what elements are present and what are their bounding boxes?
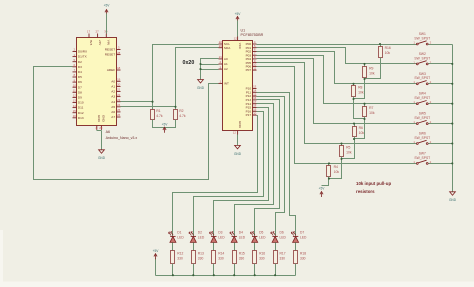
- svg-text:R18: R18: [300, 252, 306, 256]
- svg-text:A0: A0: [224, 57, 228, 61]
- svg-text:SW4: SW4: [419, 92, 426, 96]
- text 0x20: [183, 60, 195, 66]
- junction R5 bottom: [340, 158, 342, 160]
- svg-text:SW_SPST: SW_SPST: [414, 156, 430, 160]
- wire P05 to SW6: [257, 63, 417, 144]
- resistor R15: [233, 251, 237, 264]
- svg-text:A2: A2: [224, 67, 228, 71]
- junction rail row 4: [451, 103, 453, 105]
- led D5: [250, 232, 257, 243]
- svg-text:R15: R15: [239, 252, 245, 256]
- wire R18 to +5V rail: [295, 264, 297, 276]
- svg-text:12: 12: [234, 36, 238, 40]
- resistor R2: [174, 110, 178, 120]
- svg-text:R4: R4: [334, 165, 338, 169]
- svg-text:VIN: VIN: [107, 40, 111, 45]
- wire SW5 to gnd rail: [429, 123, 453, 125]
- svg-text:D11: D11: [78, 106, 84, 110]
- junction rail row 3: [451, 83, 453, 85]
- wire R4 top stub: [328, 164, 330, 166]
- svg-text:SW_SPST: SW_SPST: [414, 76, 430, 80]
- svg-text:SW_SPST: SW_SPST: [414, 96, 430, 100]
- wire LED D1 to resistor: [172, 243, 174, 251]
- svg-text:21: 21: [219, 55, 223, 59]
- wire +5V to PCF8575 VCC: [237, 21, 239, 37]
- svg-text:SW1: SW1: [419, 32, 426, 36]
- svg-text:A4: A4: [111, 100, 115, 104]
- wire R15 to +5V rail: [234, 264, 236, 276]
- svg-text:11: 11: [253, 66, 256, 70]
- svg-text:A6: A6: [106, 130, 110, 134]
- wire R8 bottom to R7 bottom: [354, 97, 365, 119]
- svg-text:14: 14: [73, 104, 77, 108]
- svg-text:LED: LED: [239, 235, 246, 239]
- junction rail row 7: [451, 162, 453, 164]
- junction rail under D5: [254, 274, 256, 276]
- wire SW7 to gnd rail: [429, 163, 453, 165]
- resistor R8: [352, 86, 356, 97]
- svg-text:A5: A5: [111, 105, 115, 109]
- wire LED D5 to resistor: [254, 243, 256, 251]
- svg-text:R5: R5: [346, 145, 350, 149]
- label D4 LED: [239, 231, 246, 240]
- ic U1 PCF8575 body: [223, 41, 253, 131]
- wire R16 top stub: [380, 45, 382, 47]
- svg-text:R2: R2: [179, 109, 183, 113]
- wire R7 bottom to R6 bottom: [355, 117, 365, 139]
- svg-text:SW5: SW5: [419, 112, 426, 116]
- svg-text:R16: R16: [385, 46, 391, 50]
- arduino value Arduino_Nano_v3.x: [106, 136, 138, 140]
- svg-text:12: 12: [73, 94, 77, 98]
- svg-text:20: 20: [117, 83, 121, 87]
- power +5V above PCF8575: [235, 12, 242, 22]
- wire P16 to LED D2: [194, 112, 264, 237]
- svg-text:A1: A1: [224, 62, 228, 66]
- junction R9 tap: [363, 63, 365, 65]
- svg-text:+5V: +5V: [162, 123, 169, 127]
- power +5V below R1 R2: [162, 123, 169, 133]
- svg-text:27: 27: [95, 30, 99, 34]
- svg-text:12: 12: [233, 131, 237, 135]
- label R1 4.7k: [156, 109, 163, 118]
- junction R7 tap: [363, 103, 365, 105]
- svg-text:330: 330: [300, 257, 306, 261]
- arduino right pins RESET AREF A0-A7: [105, 46, 121, 119]
- wire joining arduino GND pins: [97, 130, 102, 132]
- wire SW1 to gnd rail: [429, 44, 453, 46]
- wire P00 to SW1: [257, 44, 417, 46]
- svg-text:+5V: +5V: [153, 249, 160, 253]
- arduino designator A6: [106, 130, 110, 134]
- led D1: [169, 232, 176, 243]
- svg-text:30: 30: [104, 30, 108, 34]
- svg-text:10k: 10k: [346, 150, 352, 154]
- label R12 330: [177, 252, 183, 261]
- svg-text:D5: D5: [259, 231, 263, 235]
- wire R5 bottom to R4 bottom: [329, 157, 342, 179]
- wire R16 to +5V rail: [254, 264, 256, 276]
- resistor R6: [353, 127, 357, 137]
- wire R4 bottom to +5V: [322, 177, 329, 186]
- junction R8 bottom: [352, 98, 354, 100]
- wire SW4 to gnd rail: [429, 103, 453, 105]
- wire switch ground rail: [452, 45, 454, 192]
- svg-text:D3: D3: [78, 65, 82, 69]
- svg-text:15: 15: [73, 109, 77, 113]
- svg-text:RESET: RESET: [105, 53, 115, 57]
- svg-text:26: 26: [117, 113, 121, 117]
- switch SW1 SW_SPST: [413, 32, 431, 45]
- wire SCL net to PCF8575: [153, 45, 219, 110]
- wire R16 bottom to R9 bottom: [365, 58, 381, 79]
- wire R8 top stub: [353, 84, 355, 86]
- svg-text:25: 25: [117, 108, 121, 112]
- svg-text:330: 330: [239, 257, 245, 261]
- svg-text:D7: D7: [78, 85, 82, 89]
- power +5V above arduino: [104, 3, 111, 14]
- wire R5 top stub: [341, 144, 343, 146]
- ground for PCF address pins: [197, 80, 205, 90]
- wire P04 to SW5: [257, 59, 417, 124]
- wire R6 bottom to R5 bottom: [342, 137, 355, 159]
- svg-text:+5V: +5V: [104, 3, 111, 7]
- led D3: [210, 232, 217, 243]
- svg-text:R7: R7: [369, 106, 373, 110]
- wire arduino A5 to R2 column: [121, 106, 176, 108]
- resistor R13: [192, 251, 196, 264]
- svg-text:A6: A6: [111, 110, 115, 114]
- svg-text:SW_SPST: SW_SPST: [414, 36, 430, 40]
- svg-text:10k: 10k: [334, 170, 340, 174]
- U1 designator: [241, 29, 246, 33]
- svg-text:330: 330: [280, 257, 286, 261]
- wire R7 top stub: [364, 104, 366, 107]
- wire P02 to SW3: [257, 52, 417, 84]
- resistor R18: [294, 251, 298, 264]
- wire P13 to LED D5: [255, 100, 280, 237]
- wire R9 bottom to R8 bottom: [354, 78, 365, 99]
- junction rail row 6: [451, 142, 453, 144]
- note 10k input pull-up resistors: [356, 181, 391, 194]
- svg-text:10k: 10k: [385, 51, 391, 55]
- svg-text:P17: P17: [246, 113, 252, 117]
- svg-text:SW3: SW3: [419, 72, 426, 76]
- wire LED D4 to resistor: [234, 243, 236, 251]
- svg-text:3V3: 3V3: [89, 40, 93, 46]
- svg-text:18: 18: [117, 66, 121, 70]
- svg-text:19: 19: [117, 78, 121, 82]
- wire R13 to +5V rail: [193, 264, 195, 276]
- junction A4/R1: [151, 101, 153, 103]
- svg-text:D1/TX: D1/TX: [78, 55, 87, 59]
- power +5V for pull-ups: [319, 187, 326, 197]
- svg-text:330: 330: [198, 257, 204, 261]
- svg-text:D8: D8: [78, 90, 82, 94]
- arduino A6 body: [77, 38, 117, 126]
- svg-text:20: 20: [253, 111, 257, 115]
- svg-text:29: 29: [99, 126, 103, 130]
- resistor R1: [151, 110, 155, 120]
- svg-text:A7: A7: [111, 115, 115, 119]
- svg-text:+5V: +5V: [98, 40, 102, 47]
- svg-text:D7: D7: [300, 231, 304, 235]
- svg-text:AREF: AREF: [107, 68, 115, 72]
- wire SW3 to gnd rail: [429, 83, 453, 85]
- label R5 10k: [346, 145, 352, 154]
- wire R14 to +5V rail: [213, 264, 215, 276]
- svg-text:R13: R13: [198, 252, 204, 256]
- wire LED D3 to resistor: [213, 243, 215, 251]
- wire R17 to +5V rail: [275, 264, 277, 276]
- svg-text:LED: LED: [177, 235, 184, 239]
- junction R9 bottom: [363, 78, 365, 80]
- wire P11 to LED D7: [257, 93, 296, 237]
- svg-text:PCF8575DBR: PCF8575DBR: [241, 33, 264, 37]
- resistor R4: [327, 166, 331, 177]
- PCF8575 VCC pin: [234, 36, 242, 50]
- junction rail under D2: [192, 274, 194, 276]
- label R9 10k: [369, 66, 375, 75]
- svg-text:R17: R17: [280, 252, 286, 256]
- svg-text:330: 330: [177, 257, 183, 261]
- arduino top pins 3V3 +5V VIN: [87, 30, 111, 47]
- svg-text:10k: 10k: [369, 71, 375, 75]
- svg-text:R6: R6: [359, 126, 363, 130]
- resistor R16: [253, 251, 257, 264]
- power +5V for LEDs: [153, 249, 160, 259]
- label R17 330: [280, 252, 286, 261]
- svg-text:22: 22: [117, 93, 121, 97]
- wire SDA net to PCF8575: [176, 48, 219, 110]
- junction R4 tap: [328, 162, 330, 164]
- svg-text:16: 16: [73, 114, 77, 118]
- svg-text:28: 28: [117, 51, 121, 55]
- svg-text:SW2: SW2: [419, 52, 426, 56]
- svg-text:LED: LED: [198, 235, 205, 239]
- svg-text:D2: D2: [78, 60, 82, 64]
- PCF8575 right pins P00-P07 P10-P17: [246, 40, 257, 117]
- svg-text:LED: LED: [300, 235, 307, 239]
- svg-text:R9: R9: [369, 66, 373, 70]
- label R16 330: [259, 252, 265, 261]
- wire LED D2 to resistor: [193, 243, 195, 251]
- svg-text:LED: LED: [280, 235, 287, 239]
- resistor R17: [274, 251, 278, 264]
- svg-text:0x20: 0x20: [183, 60, 195, 66]
- svg-text:4.7k: 4.7k: [156, 114, 163, 118]
- junction rail under D4: [233, 274, 235, 276]
- junction rail row 2: [451, 63, 453, 65]
- svg-text:4.7k: 4.7k: [179, 114, 186, 118]
- resistor R12: [171, 251, 175, 264]
- wire arduino A4 to R1 column: [121, 101, 153, 103]
- junction R16 tap: [379, 43, 381, 45]
- resistor R5: [340, 146, 344, 157]
- svg-text:GND: GND: [449, 198, 457, 202]
- svg-text:10: 10: [73, 83, 77, 87]
- label D3 LED: [218, 231, 225, 240]
- svg-text:D9: D9: [78, 96, 82, 100]
- label D2 LED: [198, 231, 205, 240]
- svg-text:LED: LED: [259, 235, 266, 239]
- svg-text:SW_SPST: SW_SPST: [414, 136, 430, 140]
- wire PCF8575 GND down: [237, 135, 239, 146]
- svg-text:GND: GND: [98, 156, 106, 160]
- wire LED D6 to resistor: [275, 243, 277, 251]
- wire PCF A2 to ground: [201, 69, 219, 71]
- resistor R9: [363, 67, 367, 78]
- svg-text:A0: A0: [111, 79, 115, 83]
- wire R1 R2 bottoms to +5V: [153, 120, 176, 128]
- wire PCF A1 to ground: [201, 64, 219, 66]
- svg-text:D2: D2: [198, 231, 202, 235]
- svg-text:resistors: resistors: [356, 189, 375, 194]
- label R2 4.7k: [179, 109, 186, 118]
- svg-text:+5V: +5V: [235, 12, 242, 16]
- svg-text:330: 330: [218, 257, 224, 261]
- label R16 10k: [385, 46, 391, 55]
- svg-text:A2: A2: [111, 90, 115, 94]
- svg-text:P07: P07: [246, 68, 252, 72]
- svg-text:GND: GND: [234, 152, 242, 156]
- svg-text:10k: 10k: [359, 131, 365, 135]
- wire P01 to SW2: [257, 48, 417, 64]
- resistor R7: [363, 107, 367, 117]
- svg-text:10k input pull-up: 10k input pull-up: [356, 181, 391, 186]
- svg-text:24: 24: [117, 103, 121, 107]
- junction A5/R2: [174, 106, 176, 108]
- wire P06 to SW7: [257, 67, 417, 164]
- svg-text:INT: INT: [224, 82, 229, 86]
- svg-text:GND: GND: [102, 115, 106, 123]
- svg-text:D6: D6: [280, 231, 284, 235]
- ground below arduino: [98, 150, 106, 160]
- junction R8 tap: [352, 83, 354, 85]
- led D2: [189, 232, 196, 243]
- switch SW5 SW_SPST: [413, 112, 431, 125]
- svg-text:GND: GND: [238, 121, 242, 129]
- wire P12 to LED D6: [257, 97, 285, 237]
- svg-text:D10: D10: [78, 101, 84, 105]
- resistor R16: [379, 47, 383, 58]
- svg-text:11: 11: [73, 89, 76, 93]
- wire +5V rail riser: [155, 259, 157, 276]
- label R6 10k: [359, 126, 365, 135]
- svg-text:330: 330: [259, 257, 265, 261]
- svg-text:R1: R1: [156, 109, 160, 113]
- svg-text:+5V: +5V: [319, 187, 326, 191]
- junction A2/gnd net: [199, 68, 201, 70]
- junction R5 tap: [340, 142, 342, 144]
- wire R9 top stub: [364, 64, 366, 67]
- svg-text:D5: D5: [78, 75, 82, 79]
- svg-text:A3: A3: [111, 95, 115, 99]
- wire LED D7 to resistor: [295, 243, 297, 251]
- label R14 330: [218, 252, 224, 261]
- junction R7 bottom: [363, 118, 365, 120]
- wire arduino D3 to PCF8575 INT: [34, 67, 219, 180]
- svg-text:10k: 10k: [369, 111, 375, 115]
- switch SW4 SW_SPST: [413, 92, 431, 105]
- svg-text:SW_SPST: SW_SPST: [414, 116, 430, 120]
- svg-text:R14: R14: [218, 252, 224, 256]
- PCF8575 left pins SCL SDA A0 A1 A2 INT: [219, 40, 232, 85]
- wire SW6 to gnd rail: [429, 143, 453, 145]
- junction rail under D1: [172, 274, 174, 276]
- junction rail under D6: [274, 274, 276, 276]
- svg-text:D6: D6: [78, 80, 82, 84]
- label D7 LED: [300, 231, 307, 240]
- svg-text:23: 23: [117, 98, 121, 102]
- wire P03 to SW4: [257, 56, 417, 104]
- wire R12 to +5V rail: [172, 264, 174, 276]
- wire R6 top stub: [354, 124, 356, 127]
- svg-text:SW6: SW6: [419, 132, 426, 136]
- wire +5V to arduino VIN: [106, 14, 108, 34]
- svg-text:RESET: RESET: [105, 48, 115, 52]
- junction rail row 5: [451, 123, 453, 125]
- label R15 330: [239, 252, 245, 261]
- PCF8575 GND pin: [233, 121, 242, 135]
- switch SW7 SW_SPST: [413, 151, 431, 164]
- switch SW6 SW_SPST: [413, 132, 431, 145]
- label D1 LED: [177, 231, 184, 240]
- svg-text:23: 23: [219, 44, 223, 48]
- svg-text:10k: 10k: [358, 91, 364, 95]
- wire P17 to LED D1: [173, 116, 258, 237]
- svg-text:D13: D13: [78, 116, 84, 120]
- svg-text:SW_SPST: SW_SPST: [414, 56, 430, 60]
- svg-text:21: 21: [117, 88, 121, 92]
- led D7: [291, 232, 298, 243]
- svg-text:R8: R8: [358, 86, 362, 90]
- svg-text:D4: D4: [239, 231, 243, 235]
- svg-text:VCC: VCC: [238, 43, 242, 50]
- wire arduino GND down: [101, 131, 103, 150]
- label D5 LED: [259, 231, 266, 240]
- label R18 330: [300, 252, 306, 261]
- label R8 10k: [358, 86, 364, 95]
- arduino left pins D0-D13: [73, 48, 88, 120]
- label R4 10k: [334, 165, 340, 174]
- svg-text:13: 13: [73, 99, 77, 103]
- U1 value PCF8575DBR: [241, 33, 264, 37]
- label R7 10k: [369, 106, 375, 115]
- wire P15 to LED D3: [214, 108, 269, 237]
- svg-text:R16: R16: [259, 252, 265, 256]
- ground below PCF8575: [234, 145, 242, 155]
- label D6 LED: [280, 231, 287, 240]
- resistor R14: [212, 251, 216, 264]
- wire P14 to LED D4: [235, 104, 274, 237]
- junction A1/gnd net: [199, 63, 201, 65]
- wire bottom +5V rail: [156, 275, 296, 277]
- svg-text:D12: D12: [78, 111, 84, 115]
- wire PCF A0 to ground: [201, 59, 219, 80]
- svg-text:SW7: SW7: [419, 151, 426, 155]
- led D6: [271, 232, 278, 243]
- junction R6 tap: [353, 123, 355, 125]
- ground for switches: [449, 192, 457, 202]
- svg-text:D4: D4: [78, 70, 82, 74]
- junction R4 bottom: [328, 178, 330, 180]
- switch SW2 SW_SPST: [413, 52, 431, 65]
- svg-text:SDA: SDA: [224, 46, 231, 50]
- svg-text:D0/RX: D0/RX: [78, 50, 87, 54]
- led D4: [230, 232, 237, 243]
- wire SW2 to gnd rail: [429, 63, 453, 65]
